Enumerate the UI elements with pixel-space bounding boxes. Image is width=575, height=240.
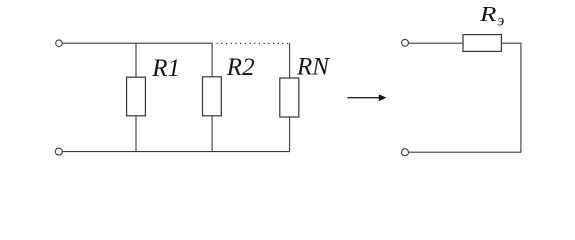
resistor R2 (203, 77, 222, 116)
resistor R1 (127, 77, 146, 116)
wire RN lower lead (289, 117, 291, 152)
wire from top-right terminal to Re (409, 42, 463, 44)
resistor RN (280, 78, 299, 117)
terminal top-right (402, 39, 409, 46)
svg-text:R2: R2 (226, 54, 255, 81)
wire R2 upper lead (211, 43, 213, 77)
wire R2 lower lead (211, 116, 213, 152)
svg-text:R: R (479, 3, 497, 26)
svg-text:э: э (497, 13, 504, 30)
terminal top-left (56, 40, 63, 47)
label Re (479, 3, 504, 29)
svg-text:R1: R1 (151, 55, 180, 82)
svg-text:RN: RN (296, 53, 330, 80)
arrow equivalence (347, 94, 386, 101)
wire top rail (62, 42, 212, 44)
wire bottom rail (62, 151, 289, 153)
wire dotted continuation to RN (217, 42, 289, 44)
resistor Re (463, 35, 501, 52)
wire RN upper lead (289, 43, 291, 78)
terminal bottom-left (55, 148, 62, 155)
terminal bottom-right (402, 149, 409, 156)
wire R1 upper lead (135, 43, 137, 77)
wire R1 lower lead (135, 116, 137, 152)
wire Re to right corner and down (409, 43, 521, 152)
